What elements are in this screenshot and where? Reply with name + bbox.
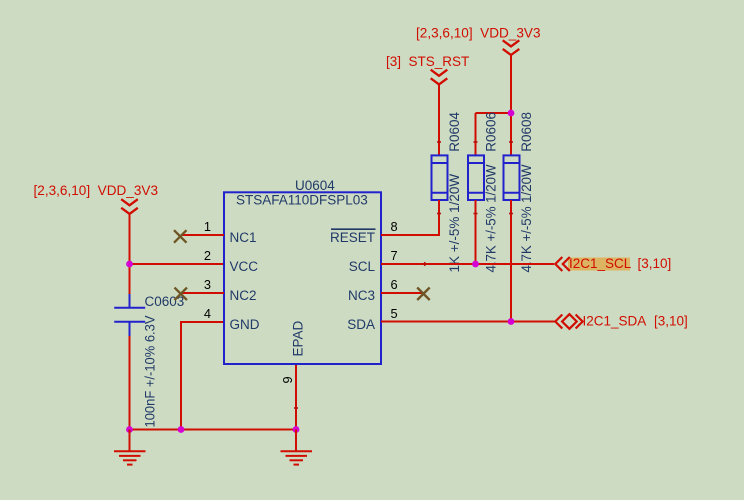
wire bottom ground rail <box>130 429 297 431</box>
svg-text:VCC: VCC <box>230 259 259 274</box>
resistor R0604 <box>432 155 449 200</box>
wire R0608 bottom to SDA <box>510 200 512 322</box>
svg-text:EPAD: EPAD <box>291 320 306 356</box>
svg-text:9: 9 <box>280 376 295 383</box>
pin-end tick R0608 bottom <box>509 213 513 215</box>
highlight box I2C1_SCL <box>568 258 630 271</box>
power symbol VDD_3V3 (left) <box>121 199 138 214</box>
pin-end tick R0604 bottom <box>437 213 441 215</box>
node junction SCL-R0606 <box>472 261 479 268</box>
svg-text:NC3: NC3 <box>348 288 375 303</box>
wire R0604 bottom to pin8 RESET <box>381 200 439 235</box>
pin-end tick EPAD <box>294 407 298 409</box>
node junction VDD-R0606 <box>508 110 515 117</box>
svg-text:1K +/-5% 1/20W: 1K +/-5% 1/20W <box>447 174 462 273</box>
capacitor C0603 <box>114 294 145 336</box>
svg-text:[3] STS_RST: [3] STS_RST <box>386 54 469 69</box>
op IC U0604 box <box>224 192 381 364</box>
svg-text:R0608: R0608 <box>519 112 534 152</box>
off-page connector I2C1_SDA <box>555 314 582 329</box>
wire R0606 top stem <box>475 113 477 156</box>
svg-text:8: 8 <box>391 219 398 234</box>
svg-text:RESET: RESET <box>330 230 375 245</box>
node junction SDA-R0608 <box>508 318 515 325</box>
svg-text:GND: GND <box>230 317 260 332</box>
wire branch to R0606 <box>476 112 512 114</box>
no-connect X pin3 <box>175 288 188 301</box>
svg-text:2: 2 <box>204 248 211 263</box>
resistor R0608 <box>504 155 521 200</box>
svg-text:[2,3,6,10] VDD_3V3: [2,3,6,10] VDD_3V3 <box>416 26 541 41</box>
pin-end tick R0606 bottom <box>474 213 478 215</box>
pin 1 NC1 stub <box>181 234 224 236</box>
pin 6 NC3 stub <box>381 292 424 294</box>
power symbol VDD_3V3 (top) <box>503 40 520 55</box>
svg-text:[2,3,6,10] VDD_3V3: [2,3,6,10] VDD_3V3 <box>34 183 159 198</box>
pin-end tick R0608 top <box>509 141 513 143</box>
wire SDA net <box>381 321 555 323</box>
wire junction to VCC pin2 <box>130 263 225 265</box>
svg-text:NC1: NC1 <box>230 230 257 245</box>
svg-text:SDA: SDA <box>347 317 375 332</box>
off-page connector I2C1_SCL <box>555 257 570 271</box>
svg-text:4.7K +/-5% 1/20W: 4.7K +/-5% 1/20W <box>519 164 534 272</box>
power symbol STS_RST arrow <box>431 70 448 85</box>
no-connect X pin1 <box>174 230 187 243</box>
svg-text:I2C1_SCL: I2C1_SCL <box>569 256 632 271</box>
wire STS_RST to R0604 <box>438 84 440 155</box>
resistor R0606 <box>468 155 485 200</box>
pin 3 NC2 stub <box>181 292 224 294</box>
svg-text:3: 3 <box>204 277 211 292</box>
no-connect X pin6 <box>417 288 430 301</box>
svg-text:1: 1 <box>204 219 211 234</box>
svg-text:SCL: SCL <box>349 259 376 274</box>
pin-end tick pin7 <box>424 262 426 266</box>
svg-text:100nF +/-10% 6.3V: 100nF +/-10% 6.3V <box>143 316 158 428</box>
svg-text:7: 7 <box>391 248 398 263</box>
wire capacitor to ground rail <box>129 336 131 430</box>
svg-text:[3,10]: [3,10] <box>654 314 688 329</box>
svg-text:6: 6 <box>391 277 398 292</box>
pin-end tick R0606 top <box>474 141 478 143</box>
wire SCL net <box>381 263 554 265</box>
wire EPAD pin9 down <box>295 364 297 430</box>
svg-text:R0606: R0606 <box>484 112 499 152</box>
svg-text:4: 4 <box>204 306 211 321</box>
svg-text:STSAFA110DFSPL03: STSAFA110DFSPL03 <box>236 193 368 208</box>
wire junction down to capacitor <box>129 264 131 295</box>
svg-text:4.7K +/-5% 1/20W: 4.7K +/-5% 1/20W <box>484 164 499 272</box>
svg-text:NC2: NC2 <box>230 288 257 303</box>
svg-text:I2C1_SDA: I2C1_SDA <box>583 314 647 329</box>
pin-end tick R0604 top <box>437 141 441 143</box>
wire GND pin4 L-shape <box>181 322 224 430</box>
svg-text:5: 5 <box>391 306 398 321</box>
svg-text:U0604: U0604 <box>295 178 335 193</box>
svg-text:[3,10]: [3,10] <box>638 256 672 271</box>
svg-text:R0604: R0604 <box>447 112 462 152</box>
node junction cap-gnd <box>126 426 133 433</box>
wire R0606 bottom to SCL <box>475 200 477 264</box>
node junction VCC <box>126 261 133 268</box>
node junction epad-gnd <box>293 426 300 433</box>
node junction gnd-wire <box>178 426 185 433</box>
wire VDD_3V3 stem to junction <box>129 214 131 264</box>
wire VDD top stem <box>510 55 512 156</box>
ground (right, under EPAD) <box>281 430 313 465</box>
ground (left) <box>114 430 146 465</box>
